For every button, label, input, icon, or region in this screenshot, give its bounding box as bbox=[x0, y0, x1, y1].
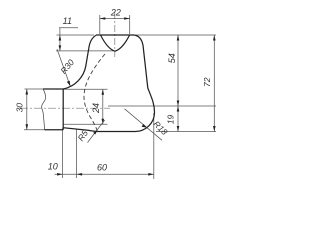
arrow 60 right bbox=[148, 173, 154, 176]
svg-text:72: 72 bbox=[202, 77, 212, 87]
wire extension line top left (11-dim top, y=35.0) bbox=[57, 34, 95, 36]
stub bottom edge bbox=[45, 129, 64, 131]
node centerline of groove (vertical dash-dot) bbox=[114, 12, 116, 57]
dimension 11 leader shelf bbox=[59, 27, 78, 29]
arrow at 76.6 pointing left bbox=[77, 173, 83, 176]
wire extension line top right (54/72 dims, y=35.0) bbox=[136, 34, 216, 36]
wire extension lines 22-dim bbox=[99, 15, 101, 34]
radius leader R18 bbox=[125, 109, 163, 141]
wire extension lines of stub 30-dim (thin, left of break) bbox=[25, 88, 44, 90]
wire break wavy line of stub bbox=[42, 89, 46, 130]
dimension 11 line bbox=[59, 28, 61, 51]
wire extension line bottom right (y=131.5 rightward) bbox=[156, 131, 216, 133]
part outline main body bbox=[63, 35, 154, 132]
radius leader R5 bbox=[88, 120, 105, 143]
stub of part top edge (right of break line) bbox=[43, 88, 63, 90]
groove V profile hanging below top edge bbox=[101, 35, 130, 51]
dimension 72 line bbox=[213, 35, 215, 132]
svg-text:10: 10 bbox=[48, 161, 58, 171]
stub right edge lower piece bbox=[62, 128, 64, 130]
wire extension line bottom dim x=76.6 bbox=[76, 129, 78, 178]
wire extension line bottom dim x=153.8 bbox=[153, 113, 155, 179]
svg-text:30: 30 bbox=[15, 103, 25, 113]
dimension 54 line bbox=[177, 35, 179, 106]
svg-text:24: 24 bbox=[91, 103, 101, 114]
svg-text:22: 22 bbox=[110, 8, 121, 18]
wire extension line groove bottom (11-dim bottom, y=50.9) bbox=[56, 50, 115, 52]
svg-text:11: 11 bbox=[63, 16, 72, 26]
dimension 30 line bbox=[26, 89, 28, 130]
arrow 10 left (outside pointing right) bbox=[57, 173, 63, 176]
svg-text:54: 54 bbox=[167, 53, 177, 63]
radius leader R30 bbox=[57, 49, 70, 86]
wire hidden dashed arc inside body bbox=[84, 54, 105, 131]
wire extension line mid right (54/19 shared, y=106) bbox=[108, 105, 216, 107]
dimension 24 line bbox=[102, 89, 104, 124]
wire extension line 24-dim bottom (y=124.3) bbox=[63, 123, 107, 125]
svg-text:60: 60 bbox=[97, 162, 107, 172]
dimension 10 and 60 bottom line bbox=[55, 173, 154, 175]
wire extension line bottom dim x=62.6 bbox=[62, 128, 64, 178]
dimension 22 line bbox=[100, 18, 130, 20]
wire extension line 24-dim top (y=89.2) bbox=[63, 88, 107, 90]
dimension 19 line bbox=[177, 106, 179, 132]
wire centerline of stub (dash-dot horizontal) bbox=[20, 107, 110, 109]
svg-text:19: 19 bbox=[166, 115, 176, 125]
